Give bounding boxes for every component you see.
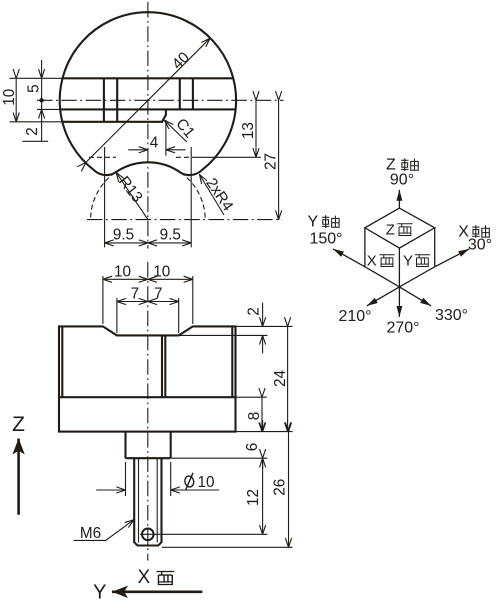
dashed R13 continuation arc right bbox=[181, 173, 206, 220]
svg-text:4: 4 bbox=[150, 135, 159, 152]
dimension 7 right bbox=[148, 301, 179, 303]
svg-text:M6: M6 bbox=[80, 525, 101, 542]
svg-text:Z: Z bbox=[12, 413, 25, 436]
dimension text 7 left bbox=[131, 286, 140, 303]
dimension text 2 bbox=[24, 127, 41, 136]
vertical centerline bbox=[147, 2, 149, 249]
dimension phi10 bbox=[96, 462, 219, 496]
dot terminator for 5/2 bbox=[39, 98, 43, 102]
dimension text 9.5 left bbox=[113, 227, 134, 244]
dimension 12 bbox=[262, 458, 264, 534]
dimension 26 bbox=[288, 432, 290, 548]
step edge line at +2 bbox=[60, 108, 235, 110]
dimension 2 front bbox=[262, 303, 264, 354]
horizontal centerline bbox=[37, 99, 284, 101]
extension line shaft end bbox=[162, 546, 293, 548]
dimension text 7 right bbox=[154, 286, 163, 303]
fillet center mark right + extension line for 13 bbox=[176, 156, 261, 158]
text R13 bbox=[115, 173, 146, 206]
extension lines 7/7 bbox=[117, 298, 179, 333]
svg-text:5: 5 bbox=[25, 84, 42, 93]
dimension 5 arrow bbox=[41, 60, 43, 100]
dimension 27 bbox=[278, 100, 280, 219]
svg-text:8: 8 bbox=[246, 412, 263, 421]
dimension text 9.5 right bbox=[160, 227, 181, 244]
dimension 10 left front bbox=[103, 278, 148, 280]
label Y face bbox=[403, 253, 430, 270]
svg-text:30°: 30° bbox=[468, 237, 492, 254]
svg-text:24: 24 bbox=[272, 370, 289, 388]
label 150deg bbox=[309, 230, 342, 247]
extension line flange bottom bbox=[237, 431, 293, 433]
dimension text 4 bbox=[150, 135, 159, 152]
label 30deg bbox=[468, 237, 492, 254]
svg-text:90°: 90° bbox=[390, 172, 414, 189]
svg-text:210°: 210° bbox=[338, 308, 371, 325]
dimension text 8 bbox=[246, 412, 263, 421]
leader C1 bbox=[165, 120, 187, 142]
extension line left of +2 line bbox=[37, 108, 60, 110]
dimension text 40 bbox=[169, 49, 193, 73]
svg-text:9.5: 9.5 bbox=[160, 227, 181, 244]
dimension 9.5 left bbox=[105, 242, 148, 244]
dimension 10 right front bbox=[148, 278, 193, 280]
svg-text:Z: Z bbox=[386, 221, 395, 238]
cube arrows bbox=[333, 190, 469, 317]
svg-text:X: X bbox=[367, 253, 377, 270]
flat chord silhouette lines bbox=[62, 326, 232, 397]
dimension text 5 bbox=[25, 84, 42, 93]
label X axis bbox=[458, 223, 489, 240]
fillet center mark left bbox=[89, 156, 116, 158]
front view vertical centerline bbox=[147, 262, 149, 561]
text C1 bbox=[172, 115, 198, 141]
slot bottom edge with C1 chamfer and step bbox=[63, 109, 166, 121]
dimension text 26 bbox=[272, 479, 289, 496]
dimension 10 left bbox=[15, 78, 17, 122]
extension line hole center bbox=[140, 533, 267, 535]
cross hole bbox=[142, 529, 154, 541]
svg-text:10: 10 bbox=[1, 89, 18, 106]
boss phi10 bbox=[126, 432, 171, 459]
dimension text 6 bbox=[244, 443, 261, 452]
leader R13 bbox=[116, 173, 148, 220]
extension line disc top right bbox=[237, 325, 293, 327]
extension line bottom left (slot bottom) bbox=[10, 121, 63, 123]
dimension text 2 front bbox=[245, 307, 262, 316]
dimension text phi10 bbox=[184, 473, 215, 491]
svg-text:10: 10 bbox=[153, 263, 170, 280]
axis arrow Z bbox=[17, 439, 20, 515]
svg-text:X: X bbox=[138, 567, 151, 588]
dimension 7 left bbox=[117, 301, 148, 303]
svg-text:10: 10 bbox=[114, 263, 131, 280]
svg-text:26: 26 bbox=[272, 479, 289, 496]
dimension text 10 right bbox=[153, 263, 170, 280]
axis arrow Y bbox=[112, 590, 202, 593]
extension lines 9.5 bbox=[105, 147, 192, 247]
svg-text:2xR4: 2xR4 bbox=[202, 175, 236, 215]
leader 2xR4 bbox=[200, 175, 225, 216]
view label X plane bbox=[138, 567, 175, 588]
text 2xR4 bbox=[202, 175, 236, 215]
svg-text:10: 10 bbox=[198, 474, 215, 491]
dimension 24 bbox=[287, 326, 289, 431]
svg-text:C1: C1 bbox=[172, 115, 198, 141]
extension line boss bottom bbox=[172, 457, 268, 459]
svg-text:270°: 270° bbox=[386, 320, 419, 337]
R13 center horizontal centerline bbox=[87, 219, 282, 221]
svg-text:2: 2 bbox=[24, 127, 41, 136]
dimension 9.5 right bbox=[148, 242, 191, 244]
extension line flange top bbox=[237, 396, 267, 398]
thread root lines bbox=[139, 458, 158, 542]
svg-text:9.5: 9.5 bbox=[113, 227, 134, 244]
dimension 2 arrow with shelf bbox=[22, 100, 48, 141]
dimension text 12 bbox=[245, 489, 262, 506]
step edges projected bbox=[162, 335, 165, 397]
svg-text:Y: Y bbox=[403, 253, 413, 270]
slot vertical edge left x=-10 bbox=[103, 78, 105, 122]
label 270deg bbox=[386, 320, 419, 337]
svg-text:Y: Y bbox=[308, 214, 319, 231]
leader M6 bbox=[74, 520, 134, 541]
dimension text 10 bbox=[1, 89, 18, 106]
label 210deg bbox=[338, 308, 371, 325]
part outline: circle D40 with R13 scallop and 2xR4 fillets bbox=[60, 12, 236, 175]
extension line top left (slot top) bbox=[10, 77, 63, 79]
body outline disc section bbox=[59, 326, 236, 397]
svg-text:330°: 330° bbox=[435, 307, 468, 324]
slot top edge chord bbox=[63, 77, 234, 79]
dimension text 27 bbox=[263, 153, 280, 170]
slot vertical edge right x=+7 bbox=[179, 78, 181, 109]
axis label Y bbox=[93, 582, 106, 604]
svg-text:40: 40 bbox=[169, 49, 193, 73]
label Y axis bbox=[308, 214, 340, 231]
dimension 40 diagonal bbox=[86, 38, 210, 162]
flange bbox=[59, 397, 236, 431]
label 330deg bbox=[435, 307, 468, 324]
label 90deg bbox=[390, 172, 414, 189]
label X face bbox=[367, 253, 395, 270]
svg-text:7: 7 bbox=[154, 286, 163, 303]
label Z axis bbox=[386, 157, 418, 174]
text M6 bbox=[80, 525, 101, 542]
threaded stud M6 outline bbox=[134, 458, 161, 545]
dashed R13 continuation arc left bbox=[91, 173, 116, 220]
dimension 13 bbox=[255, 100, 257, 157]
svg-text:Y: Y bbox=[93, 582, 106, 604]
dimension text 13 bbox=[240, 122, 257, 139]
slot vertical edge left x=-7 bbox=[116, 78, 118, 122]
label Z face bbox=[386, 221, 413, 238]
svg-text:7: 7 bbox=[131, 286, 140, 303]
axis label Z bbox=[12, 413, 25, 436]
dimension 8 bbox=[261, 397, 263, 431]
svg-text:27: 27 bbox=[263, 153, 280, 170]
dimension 6 bbox=[262, 420, 264, 469]
svg-text:2: 2 bbox=[245, 307, 262, 316]
dimension text 10 left bbox=[114, 263, 131, 280]
svg-text:12: 12 bbox=[245, 489, 262, 506]
dimension 4 bbox=[128, 120, 185, 156]
dimension text 24 bbox=[272, 370, 289, 388]
svg-text:150°: 150° bbox=[309, 230, 342, 247]
svg-text:6: 6 bbox=[244, 443, 261, 452]
extension line groove bottom right bbox=[179, 334, 267, 336]
cube outline bbox=[365, 208, 435, 287]
extension lines 10/10 bbox=[103, 276, 193, 324]
slot vertical edge right x=+10 bbox=[192, 78, 194, 109]
svg-text:13: 13 bbox=[240, 122, 257, 139]
